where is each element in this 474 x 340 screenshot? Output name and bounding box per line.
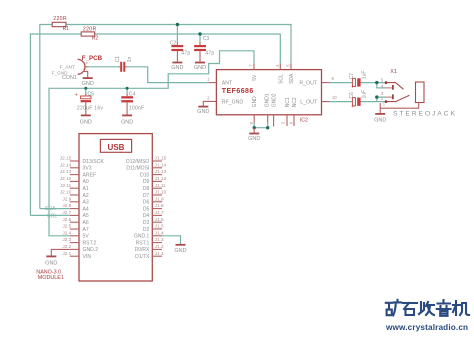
svg-text:L_OUT: L_OUT — [300, 99, 318, 105]
Nano left pin J2.12 A0 — [60, 176, 89, 185]
IC2 NC1 stub — [280, 115, 287, 126]
svg-text:47p: 47p — [181, 50, 190, 56]
svg-text:J1.12: J1.12 — [155, 176, 167, 181]
resistor R1 220R — [52, 16, 69, 32]
capacitor C3 47p — [194, 36, 214, 62]
Nano left pin J2.6 A6 — [62, 217, 88, 226]
ground for RF_GND — [197, 107, 209, 116]
svg-text:J2.4: J2.4 — [62, 230, 71, 235]
svg-text:J2.15: J2.15 — [60, 156, 72, 161]
svg-text:GND: GND — [171, 65, 183, 71]
IC2 pin 4 SCL stub — [275, 64, 280, 70]
wire ANT net: CON1 through C1 to IC ANT pin — [89, 67, 209, 83]
svg-text:J1.8: J1.8 — [155, 203, 164, 208]
svg-text:C5: C5 — [87, 91, 94, 97]
svg-text:ANT: ANT — [222, 81, 233, 87]
svg-text:TEF6686: TEF6686 — [222, 88, 254, 95]
svg-text:47p: 47p — [205, 50, 214, 56]
Nano right pin J1.1 D1/TX — [135, 251, 164, 260]
svg-text:C3: C3 — [203, 36, 210, 42]
svg-text:CON1: CON1 — [62, 75, 77, 81]
svg-text:D2: D2 — [143, 227, 150, 233]
svg-text:J2.14: J2.14 — [60, 162, 72, 167]
jack pin 3 contact — [381, 91, 394, 99]
wire 5V net: Nano 5V pin left, up, along rail past C5/C4 staircase to IC pin 7 — [49, 51, 254, 236]
svg-text:1uF: 1uF — [361, 90, 367, 99]
svg-text:J2.9: J2.9 — [62, 196, 71, 201]
ground for C4 — [121, 115, 133, 125]
svg-text:J1.10: J1.10 — [155, 190, 167, 195]
svg-text:TIP: TIP — [83, 61, 89, 65]
Nano left pin J2.2 GND.2 — [62, 244, 98, 253]
Nano right pin J1.11 D8 — [143, 183, 166, 192]
wire C4 tap from 5V rail — [126, 88, 128, 93]
svg-text:J2.13: J2.13 — [60, 169, 72, 174]
wire GND.2 to ground — [51, 249, 70, 256]
svg-text:J2.1: J2.1 — [62, 251, 71, 256]
svg-text:J2.12: J2.12 — [60, 176, 72, 181]
svg-text:J1.15: J1.15 — [155, 156, 167, 161]
svg-text:GND: GND — [248, 136, 260, 142]
Nano right pin J1.2 D0/RX — [135, 244, 164, 253]
svg-text:F_ANT: F_ANT — [60, 65, 75, 71]
svg-text:220R: 220R — [83, 26, 97, 32]
svg-text:J1.2: J1.2 — [155, 244, 164, 249]
svg-text:J1.7: J1.7 — [155, 210, 164, 215]
wire SDA net: Nano A4 up left side, along top through R1 to IC pin 5 — [40, 25, 291, 209]
svg-text:J2.2: J2.2 — [62, 244, 71, 249]
svg-text:J2.3: J2.3 — [62, 237, 71, 242]
svg-text:D5: D5 — [143, 206, 150, 212]
Nano right pin J1.7 D4 — [143, 210, 164, 219]
junction 5V/C5 — [84, 87, 87, 90]
jack pin 4 contact — [381, 84, 394, 90]
svg-text:D7: D7 — [143, 193, 150, 199]
IC2 GND2 stub — [273, 115, 275, 127]
svg-text:D10: D10 — [140, 172, 149, 178]
wire C3 tap from SCL line — [199, 34, 201, 42]
Nano left pin J2.5 A7 — [62, 224, 88, 233]
Nano right pin J1.4 GND.1 — [134, 230, 164, 239]
ground for Nano GND.2 — [45, 256, 57, 266]
svg-text:J1.9: J1.9 — [155, 196, 164, 201]
IC2 pin 10 L_OUT stub — [322, 95, 338, 101]
svg-text:J1.13: J1.13 — [155, 169, 167, 174]
Nano right pin J1.8 D5 — [143, 203, 164, 212]
capacitor C6 1uF electrolytic — [349, 90, 368, 110]
IC2 NC2 stub — [288, 115, 294, 126]
wire SCL net: Nano A5 up, along second row through R2 to IC pin 4 — [30, 34, 280, 215]
svg-text:1uF: 1uF — [361, 71, 367, 80]
junction SCL/C3 — [198, 32, 201, 35]
ground for C2 — [171, 63, 183, 72]
svg-text:C6: C6 — [349, 92, 355, 99]
svg-text:J2.7: J2.7 — [62, 210, 71, 215]
jack pin 5 with lever — [381, 77, 404, 89]
Nano right pin J1.15 D12/MISO — [126, 156, 167, 165]
Nano right pin J1.5 D2 — [143, 224, 164, 233]
wire C2 tap from SDA line — [176, 25, 178, 43]
svg-text:J1.4: J1.4 — [155, 230, 164, 235]
svg-text:GND.1: GND.1 — [134, 234, 150, 240]
Nano right pin J1.12 D9 — [143, 176, 167, 185]
IC2 pin 9 R_OUT stub — [322, 76, 335, 82]
wire L_OUT net: IC pin 10 through C6 to jack pins 2/3 — [330, 97, 387, 102]
Nano left pin J2.7 A5 — [62, 210, 88, 219]
Nano right pin J1.10 D7 — [143, 190, 167, 199]
svg-text:J1.3: J1.3 — [155, 237, 164, 242]
svg-text:J1.14: J1.14 — [155, 162, 167, 167]
svg-text:RST.1: RST.1 — [136, 240, 150, 246]
label NANO-3.0 MODULE1 — [36, 269, 64, 281]
svg-text:GND: GND — [374, 117, 386, 123]
svg-text:MODULE1: MODULE1 — [38, 275, 64, 281]
watermark logo: crystalradio Chinese characters — [386, 300, 469, 316]
svg-text:IC2: IC2 — [300, 117, 308, 123]
svg-text:GND2: GND2 — [272, 93, 278, 107]
ground for C3 — [194, 63, 206, 72]
svg-text:100nF: 100nF — [129, 105, 145, 111]
Nano right pin J1.14 D11/MOSI — [126, 162, 166, 171]
svg-text:4: 4 — [86, 69, 88, 73]
connector X1 stereo jack — [390, 69, 424, 103]
junction IC ground bus right — [266, 126, 269, 129]
ground for IC2 GND bus — [248, 128, 260, 142]
svg-text:NC2: NC2 — [292, 97, 298, 107]
svg-text:+: + — [351, 104, 354, 110]
svg-text:A2: A2 — [83, 193, 89, 199]
svg-text:GND: GND — [252, 96, 258, 108]
junction L_OUT at jack — [375, 95, 378, 98]
svg-text:D12/MISO: D12/MISO — [126, 159, 149, 165]
svg-text:GND: GND — [45, 260, 57, 266]
svg-text:10: 10 — [332, 95, 337, 100]
Nano left pin J2.15 D13/SCK — [60, 156, 105, 165]
Nano left pin J2.14 3V3 — [60, 162, 92, 171]
IC2 pin 2 RF_GND stub — [203, 96, 216, 107]
svg-text:GND: GND — [174, 248, 186, 254]
op-amp/IC U1 TEF6686 body IC2 — [216, 70, 321, 124]
svg-text:SCL: SCL — [47, 214, 57, 220]
IC2 pin 5 SDA stub — [286, 64, 291, 70]
svg-text:D8: D8 — [143, 186, 150, 192]
svg-text:R1: R1 — [63, 26, 70, 32]
Nano left pin J2.3 RST.2 — [62, 237, 96, 246]
svg-text:X1: X1 — [390, 69, 397, 75]
capacitor C1 1n — [115, 56, 133, 72]
Nano right pin J1.3 RST.1 — [136, 237, 164, 246]
svg-text:5V: 5V — [83, 234, 90, 240]
svg-text:A0: A0 — [83, 179, 89, 185]
svg-text:J1.11: J1.11 — [155, 183, 167, 188]
svg-text:RF_GND: RF_GND — [222, 99, 244, 105]
svg-text:USB: USB — [108, 143, 125, 152]
junction SDA/C2 — [176, 23, 179, 26]
ground for jack sleeve — [374, 114, 386, 124]
svg-text:A1: A1 — [83, 186, 89, 192]
svg-text:R_OUT: R_OUT — [299, 81, 317, 87]
jack pin 1 sleeve — [380, 102, 419, 114]
svg-text:J2.8: J2.8 — [62, 203, 71, 208]
svg-text:D3: D3 — [143, 220, 150, 226]
svg-text:3V3: 3V3 — [83, 166, 92, 172]
svg-text:D4: D4 — [143, 213, 150, 219]
svg-text:GND: GND — [80, 120, 92, 126]
svg-text:A3: A3 — [83, 200, 89, 206]
svg-text:A7: A7 — [83, 227, 89, 233]
svg-text:RST.2: RST.2 — [83, 240, 97, 246]
ground for Nano GND.1 — [174, 245, 186, 254]
capacitor C5 220uF 16v electrolytic — [75, 91, 104, 115]
svg-text:NC1: NC1 — [285, 97, 291, 107]
junction R_OUT at jack — [375, 81, 378, 84]
capacitor C4 100nF — [121, 91, 144, 115]
svg-text:D11/MOSI: D11/MOSI — [126, 166, 149, 172]
svg-text:SDA: SDA — [289, 73, 295, 84]
svg-text:A6: A6 — [83, 220, 89, 226]
svg-text:1: 1 — [83, 68, 85, 72]
svg-text:D9: D9 — [143, 179, 150, 185]
module NANO-3.0 MODULE1 body — [79, 134, 152, 281]
svg-text:GND: GND — [82, 81, 94, 87]
svg-text:220uF 16v: 220uF 16v — [77, 105, 104, 111]
svg-text:GND1: GND1 — [265, 93, 271, 107]
svg-text:C1: C1 — [115, 56, 121, 63]
wire GND.1 from Nano right side — [162, 236, 181, 245]
svg-text:D0/RX: D0/RX — [135, 247, 150, 253]
svg-text:J1.6: J1.6 — [155, 217, 164, 222]
svg-text:R2: R2 — [92, 36, 99, 42]
IC2 pin 7 5V stub — [249, 64, 254, 70]
ground for C5 — [80, 115, 92, 125]
svg-text:SDA: SDA — [45, 206, 56, 212]
svg-text:J1.1: J1.1 — [155, 251, 164, 256]
connector CON1 F_PCB antenna — [52, 55, 103, 81]
svg-text:SCL: SCL — [278, 74, 284, 84]
svg-text:+: + — [75, 93, 78, 99]
svg-text:GND.2: GND.2 — [83, 247, 99, 253]
wire C5 tap from 5V rail — [85, 88, 87, 93]
Nano right pin J1.6 D3 — [143, 217, 164, 226]
svg-text:D1/TX: D1/TX — [135, 254, 150, 260]
Nano left pin J2.1 VIN — [62, 251, 91, 260]
svg-text:J2.5: J2.5 — [62, 224, 71, 229]
svg-text:AREF: AREF — [83, 172, 97, 178]
svg-text:GND: GND — [197, 109, 209, 115]
Nano left pin J2.10 A2 — [60, 190, 89, 199]
wire IC ground bus under IC2 — [254, 123, 268, 128]
Nano left pin J2.8 A4 — [62, 203, 88, 212]
svg-text:VIN: VIN — [83, 254, 92, 260]
svg-text:STEREOJACK: STEREOJACK — [393, 111, 457, 118]
wire R_OUT net: IC pin 9 through C7 to jack pins 5/4 — [330, 83, 387, 88]
Nano left pin J2.11 A1 — [60, 183, 89, 192]
resistor R2 220R — [81, 26, 98, 41]
ground for CON1 — [82, 78, 94, 87]
svg-text:1n: 1n — [127, 57, 133, 63]
Nano left pin J2.4 5V — [62, 230, 89, 239]
jack pin 2 with lever — [381, 95, 410, 103]
svg-text:GND: GND — [121, 120, 133, 126]
svg-text:A4: A4 — [83, 206, 89, 212]
svg-text:J2.6: J2.6 — [62, 217, 71, 222]
junction 5V/C4 — [126, 87, 129, 90]
IC2 pin 1 ANT stub — [207, 76, 216, 82]
svg-text:C7: C7 — [349, 73, 355, 80]
svg-text:J1.5: J1.5 — [155, 224, 164, 229]
svg-text:C2: C2 — [170, 41, 177, 47]
svg-text:J2.10: J2.10 — [60, 190, 72, 195]
svg-text:C4: C4 — [129, 91, 136, 97]
capacitor C7 1uF electrolytic — [349, 71, 368, 91]
svg-text:www.crystalradio.cn: www.crystalradio.cn — [385, 323, 468, 332]
Nano left pin J2.13 AREF — [60, 169, 96, 178]
svg-text:220R: 220R — [53, 16, 67, 22]
IC2 GND1 stub — [267, 115, 269, 123]
Nano right pin J1.9 D6 — [143, 196, 164, 205]
Nano left pin J2.9 A3 — [62, 196, 88, 205]
svg-text:D13/SCK: D13/SCK — [83, 159, 105, 165]
svg-text:A5: A5 — [83, 213, 89, 219]
IC2 pin 8 GND stub — [249, 115, 254, 125]
capacitor C2 47p — [170, 41, 191, 63]
Nano right pin J1.13 D10 — [140, 169, 167, 178]
svg-text:5V: 5V — [252, 74, 258, 81]
svg-text:+: + — [351, 85, 354, 91]
svg-text:GND: GND — [194, 65, 206, 71]
junction IC ground bus left — [253, 126, 256, 129]
svg-text:J2.11: J2.11 — [60, 183, 72, 188]
svg-text:D6: D6 — [143, 200, 150, 206]
